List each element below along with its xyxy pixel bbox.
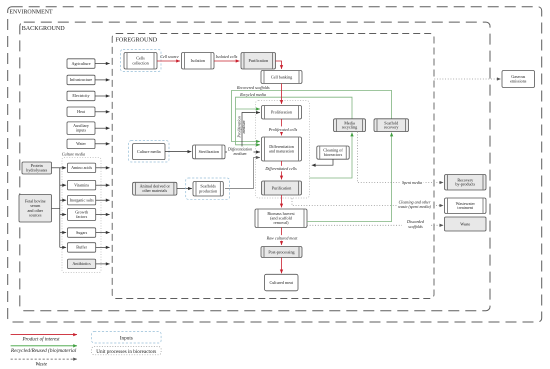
wire spent media to media recycling (green) bbox=[310, 133, 353, 178]
legend product of interest arrow bbox=[11, 334, 77, 336]
svg-text:recovery: recovery bbox=[384, 125, 399, 130]
wire animal materials to scaffolds production bbox=[177, 188, 192, 190]
svg-text:medium: medium bbox=[241, 120, 246, 133]
svg-text:recycling: recycling bbox=[342, 125, 357, 130]
wire Buffer to foreground bbox=[96, 246, 110, 248]
wire differentiation medium (sterilization to differentiation) bbox=[225, 151, 260, 153]
wire Electricity to foreground bbox=[95, 95, 110, 97]
svg-text:Post-processing: Post-processing bbox=[268, 249, 294, 254]
svg-text:treatment: treatment bbox=[457, 205, 473, 210]
input container cells collection bbox=[121, 50, 162, 72]
box Waste bbox=[445, 217, 487, 231]
legend unit processes box bbox=[92, 347, 162, 355]
svg-text:collection: collection bbox=[132, 60, 148, 65]
svg-text:Infrastructure: Infrastructure bbox=[70, 77, 93, 82]
svg-text:sources: sources bbox=[29, 213, 42, 218]
wire rail branch y214.5 bbox=[60, 214, 66, 216]
svg-text:Inorganic salts: Inorganic salts bbox=[70, 197, 95, 202]
svg-text:Product of interest: Product of interest bbox=[21, 337, 60, 342]
legend waste arrow bbox=[11, 358, 77, 360]
wire post-processing to cultured meat bbox=[281, 258, 283, 274]
wire raw cultured meat bbox=[281, 228, 283, 245]
svg-text:Recycled/Reused (bio)material: Recycled/Reused (bio)material bbox=[10, 347, 77, 354]
wire cleaning to bioreactor container bbox=[312, 159, 333, 165]
wire cell banking to proliferation bbox=[281, 84, 283, 104]
box Culture media (input) bbox=[133, 144, 165, 160]
box Antibiotics bbox=[68, 259, 96, 269]
label proliferated cells bbox=[267, 126, 300, 132]
svg-text:Purification: Purification bbox=[272, 185, 292, 190]
box Vitamins bbox=[68, 180, 96, 190]
svg-text:Vitamins: Vitamins bbox=[74, 182, 89, 187]
wire rail branch y247.4 bbox=[60, 246, 66, 248]
svg-text:by-products: by-products bbox=[455, 182, 475, 187]
box Media recycling bbox=[334, 119, 366, 132]
box Cells collection bbox=[124, 53, 157, 70]
box Recovery by-products bbox=[445, 175, 487, 191]
svg-text:Isolation: Isolation bbox=[191, 58, 206, 63]
svg-text:Agriculture: Agriculture bbox=[71, 61, 90, 66]
svg-text:Sugars: Sugars bbox=[76, 230, 88, 235]
svg-text:Culture media: Culture media bbox=[137, 149, 161, 154]
box Infrastructure bbox=[67, 75, 95, 85]
wire scaffolds to differentiation (gray) bbox=[225, 158, 260, 189]
svg-text:production: production bbox=[199, 188, 217, 193]
svg-text:Buffer: Buffer bbox=[76, 245, 87, 250]
svg-text:Recycled media: Recycled media bbox=[239, 92, 266, 97]
svg-text:BACKGROUND: BACKGROUND bbox=[22, 26, 66, 32]
wire Auxiliary inputs to foreground bbox=[95, 127, 110, 129]
wire Growth factors to foreground bbox=[96, 214, 110, 216]
box Cleaning of bioreactors bbox=[317, 146, 349, 159]
wire cleaning waste line bbox=[292, 198, 443, 205]
wire proliferation medium branch bbox=[242, 113, 260, 153]
svg-text:Sterilization: Sterilization bbox=[199, 149, 219, 154]
svg-text:Isolated cells: Isolated cells bbox=[215, 54, 238, 59]
wire cell source bbox=[157, 60, 180, 62]
svg-text:medium: medium bbox=[234, 151, 247, 156]
box Growth factors bbox=[68, 209, 96, 221]
svg-text:and maturation: and maturation bbox=[269, 149, 294, 154]
wire rail branch y232.5 bbox=[60, 232, 66, 234]
svg-text:Purification: Purification bbox=[248, 58, 268, 63]
box Scaffolds production bbox=[193, 182, 223, 197]
box Post-processing bbox=[261, 247, 302, 258]
box Gaseous emissions bbox=[502, 71, 535, 88]
box Protein hydrolysates bbox=[22, 162, 52, 174]
svg-text:inputs: inputs bbox=[76, 128, 87, 133]
svg-text:removal): removal) bbox=[274, 220, 290, 225]
box Agriculture bbox=[67, 59, 95, 69]
svg-text:factors: factors bbox=[76, 214, 88, 219]
boundary BACKGROUND bbox=[20, 22, 490, 311]
wire protein hydrolysates to amino acids bbox=[52, 167, 67, 169]
box Cultured meat bbox=[265, 274, 299, 291]
svg-text:Waste: Waste bbox=[460, 221, 470, 226]
wire Sugars to foreground bbox=[96, 232, 110, 234]
label discarded scaffolds bbox=[402, 219, 430, 231]
wire differentiated cells bbox=[281, 161, 283, 179]
wire Heat to foreground bbox=[95, 111, 110, 113]
wire Infrastructure to foreground bbox=[95, 79, 110, 81]
wire Vitamins to foreground bbox=[96, 184, 110, 186]
box Animal derived or other materials bbox=[133, 182, 177, 195]
wire spent media waste line bbox=[358, 132, 444, 183]
box Buffer bbox=[68, 243, 96, 253]
svg-text:Cell banking: Cell banking bbox=[271, 74, 292, 79]
svg-text:Unit processes in bioreactors: Unit processes in bioreactors bbox=[96, 349, 156, 355]
svg-text:hydrolysates: hydrolysates bbox=[26, 168, 47, 173]
box Scaffold recovery bbox=[374, 119, 409, 132]
box Heat bbox=[67, 107, 95, 117]
svg-text:ENVIRONMENT: ENVIRONMENT bbox=[9, 9, 53, 15]
svg-text:emissions: emissions bbox=[510, 78, 527, 83]
wire rail branch y185.2 bbox=[60, 184, 66, 186]
wire purification to cell banking bbox=[276, 61, 282, 69]
box Differentiation and maturation bbox=[262, 137, 302, 161]
legend recycled arrow bbox=[11, 345, 77, 347]
box Electricity bbox=[67, 91, 95, 101]
svg-text:Differentiated cells: Differentiated cells bbox=[264, 166, 297, 171]
label spent media bbox=[401, 180, 424, 185]
culture media group container bbox=[62, 158, 101, 273]
svg-text:Proliferated cells: Proliferated cells bbox=[268, 127, 298, 132]
svg-text:Electricity: Electricity bbox=[72, 93, 90, 98]
legend inputs box bbox=[92, 332, 162, 344]
box Purification (cells) bbox=[241, 53, 276, 70]
wire Inorganic salts to foreground bbox=[96, 199, 110, 201]
svg-text:Raw cultured meat: Raw cultured meat bbox=[266, 235, 299, 240]
wire fetal bovine serum rail bbox=[52, 168, 60, 248]
wire discarded scaffolds waste line bbox=[307, 224, 443, 226]
box Cell banking bbox=[261, 71, 302, 84]
label raw cultured meat bbox=[264, 235, 301, 241]
svg-text:Heat: Heat bbox=[77, 109, 86, 114]
svg-text:Inputs: Inputs bbox=[120, 335, 133, 341]
svg-text:Cell source: Cell source bbox=[160, 54, 179, 59]
svg-text:Proliferation: Proliferation bbox=[271, 110, 292, 115]
wire purification to biomass harvest bbox=[281, 195, 283, 207]
box Inorganic salts bbox=[68, 195, 96, 205]
wire gaseous emissions line bbox=[434, 78, 500, 80]
box Purification (biomass) bbox=[262, 181, 302, 195]
wire recovered scaffolds (scaffold recovery to differentiation) bbox=[232, 91, 392, 142]
svg-text:Waste: Waste bbox=[35, 363, 48, 368]
box Isolation bbox=[182, 53, 215, 70]
svg-text:Spent media: Spent media bbox=[402, 180, 422, 185]
box Sterilization bbox=[193, 145, 225, 159]
wire Water to foreground bbox=[95, 143, 110, 145]
container unit processes in bioreactors bbox=[256, 101, 310, 199]
wire rail branch y200.2 bbox=[60, 199, 66, 201]
wire Amino acids to foreground bbox=[96, 167, 110, 169]
wire culture media to sterilization bbox=[165, 151, 191, 153]
box Fetal bovine serum and other sources bbox=[19, 195, 52, 223]
wire recycled media branch to proliferation bbox=[236, 108, 260, 110]
svg-text:Culture media: Culture media bbox=[62, 152, 85, 157]
label differentiation medium bbox=[227, 146, 254, 156]
svg-text:Water: Water bbox=[76, 141, 86, 146]
wire Agriculture to foreground bbox=[95, 63, 110, 65]
label cleaning and other waste bbox=[397, 199, 432, 211]
svg-text:other materials: other materials bbox=[142, 188, 167, 193]
box Sugars bbox=[68, 228, 96, 238]
box Proliferation bbox=[262, 106, 302, 120]
wire scaffolds to scaffold recovery (green) bbox=[307, 133, 392, 222]
label proliferation medium (rotated) bbox=[236, 116, 246, 138]
input container culture media bbox=[129, 141, 169, 162]
box Biomass harvest bbox=[255, 209, 307, 228]
box Water bbox=[67, 139, 95, 149]
wire isolated cells bbox=[214, 60, 240, 62]
box Auxiliary inputs bbox=[67, 122, 95, 134]
label differentiated cells bbox=[264, 166, 299, 172]
box Wastewater treatment bbox=[445, 198, 487, 214]
wire proliferated cells bbox=[281, 119, 283, 135]
svg-text:scaffolds: scaffolds bbox=[408, 224, 423, 229]
svg-text:Recovered scaffolds: Recovered scaffolds bbox=[236, 85, 270, 90]
box Amino acids bbox=[68, 163, 96, 173]
wire recycled media (media recycling to proliferation/differentiation) bbox=[236, 97, 353, 145]
svg-text:Cultured meat: Cultured meat bbox=[269, 280, 293, 285]
svg-text:FOREGROUND: FOREGROUND bbox=[116, 37, 158, 43]
svg-text:Amino acids: Amino acids bbox=[71, 165, 92, 170]
input container scaffolds production bbox=[186, 178, 230, 199]
boundary FOREGROUND bbox=[112, 34, 434, 299]
svg-text:waste (spent media): waste (spent media) bbox=[398, 204, 431, 209]
svg-text:bioreactors: bioreactors bbox=[324, 152, 343, 157]
svg-text:Antibiotics: Antibiotics bbox=[72, 261, 91, 266]
wire Antibiotics to foreground bbox=[96, 263, 110, 265]
